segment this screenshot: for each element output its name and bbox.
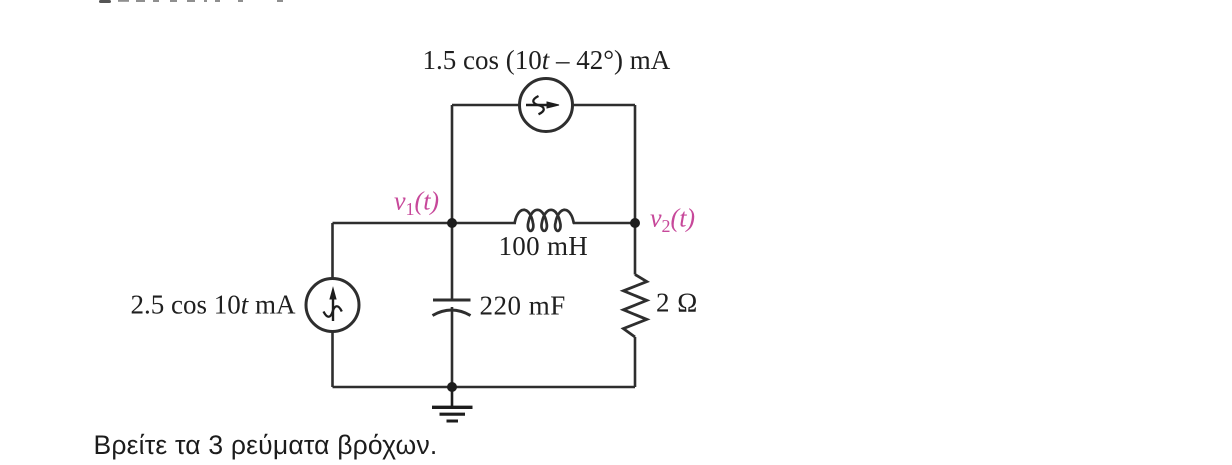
wire right branch lower xyxy=(634,337,637,387)
svg-text:2 Ω: 2 Ω xyxy=(656,288,698,318)
wire capacitor branch lower xyxy=(451,307,454,387)
capacitor C1 curved bottom plate xyxy=(433,310,471,316)
current source I2 sine squiggle xyxy=(533,96,544,114)
current source I1 arrow (up) xyxy=(330,288,336,321)
current source I1 sine squiggle xyxy=(324,306,342,317)
svg-text:100 mH: 100 mH xyxy=(499,231,589,261)
resistor R1 2 ohm zigzag xyxy=(623,275,646,338)
inductor L1 100 mH xyxy=(515,210,574,231)
wire bottom horizontal xyxy=(333,386,636,389)
svg-text:2.5 cos 10t mA: 2.5 cos 10t mA xyxy=(131,290,297,320)
capacitor C1 top plate xyxy=(433,299,471,302)
wire top-right vertical xyxy=(634,105,637,223)
ground node junction dot xyxy=(447,382,457,392)
svg-text:v2(t): v2(t) xyxy=(650,204,695,237)
wire middle horizontal right segment xyxy=(573,222,635,225)
svg-text:220 mF: 220 mF xyxy=(480,291,566,321)
wire top horizontal xyxy=(452,104,635,107)
wire capacitor branch upper xyxy=(451,223,454,300)
current source I2 arrow xyxy=(526,102,559,108)
node v1 junction dot xyxy=(447,218,457,228)
cropped text remnant at top edge xyxy=(99,0,283,3)
wire right branch upper xyxy=(634,223,637,275)
node v2 junction dot xyxy=(630,218,640,228)
svg-text:Βρείτε τα 3 ρεύματα βρόχων.: Βρείτε τα 3 ρεύματα βρόχων. xyxy=(94,430,438,460)
current source I1 left circle xyxy=(306,279,359,332)
wire left branch vertical xyxy=(331,223,334,387)
svg-text:v1(t): v1(t) xyxy=(394,187,439,220)
current source I2 top circle xyxy=(520,79,573,132)
ground symbol xyxy=(432,387,473,421)
svg-text:1.5 cos (10t – 42°) mA: 1.5 cos (10t – 42°) mA xyxy=(423,45,671,75)
wire top-left vertical (v1 node up to top wire) xyxy=(451,105,454,223)
wire middle horizontal left segment xyxy=(333,222,517,225)
